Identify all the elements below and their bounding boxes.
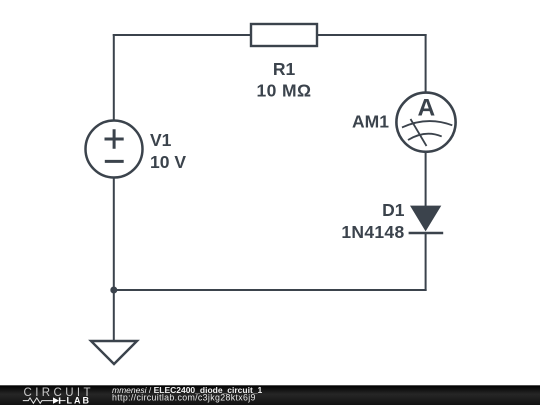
wire top rail to AM1 xyxy=(425,34,427,93)
value 1N4148 xyxy=(341,222,404,242)
label V1 xyxy=(150,130,172,150)
voltage source V1 xyxy=(86,121,143,178)
wire V1 top to top rail xyxy=(113,34,115,121)
svg-text:AM1: AM1 xyxy=(352,112,389,132)
label AM1 xyxy=(352,112,389,132)
logo CIRCUIT LAB xyxy=(23,387,94,405)
ammeter AM1 xyxy=(396,93,455,152)
svg-text:10 V: 10 V xyxy=(150,152,186,172)
value 10 V xyxy=(150,152,186,172)
svg-text:http://circuitlab.com/c3jkg28k: http://circuitlab.com/c3jkg28ktx6j9 xyxy=(112,393,256,403)
svg-text:1N4148: 1N4148 xyxy=(341,222,404,242)
credit text xyxy=(112,385,263,403)
node junction xyxy=(110,287,117,294)
svg-text:LAB: LAB xyxy=(67,395,92,405)
svg-text:A: A xyxy=(417,95,435,122)
footer bar xyxy=(0,385,540,405)
resistor R1 xyxy=(251,24,317,46)
value 10 MΩ xyxy=(257,81,312,101)
label R1 xyxy=(273,59,296,79)
wire bottom rail xyxy=(114,289,427,291)
svg-text:R1: R1 xyxy=(273,59,296,79)
wire D1 cathode to bottom rail xyxy=(425,233,427,291)
wire AM1 to D1 xyxy=(425,152,427,206)
diode D1 xyxy=(409,206,444,233)
svg-text:10 MΩ: 10 MΩ xyxy=(257,81,312,101)
svg-text:D1: D1 xyxy=(382,200,405,220)
wire top rail through R1 xyxy=(113,34,427,36)
svg-text:V1: V1 xyxy=(150,130,172,150)
wire V1 bottom to node A xyxy=(113,178,115,291)
ground xyxy=(91,341,137,364)
label D1 xyxy=(382,200,405,220)
wire node A to ground xyxy=(113,290,115,341)
